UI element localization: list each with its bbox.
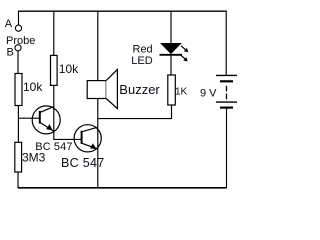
battery 9V	[216, 75, 237, 108]
transistor Q1 BC547	[32, 106, 60, 134]
svg-text:Buzzer: Buzzer	[119, 82, 160, 97]
transistor Q2 BC547	[74, 125, 101, 152]
wire bottom rail	[18, 187, 227, 189]
svg-text:BC 547: BC 547	[61, 156, 105, 170]
wire 3M3 to bottom rail	[17, 172, 19, 188]
wire top rail	[19, 10, 227, 12]
svg-text:B: B	[7, 46, 14, 58]
wire LED to 1K	[170, 55, 172, 75]
wire battery bottom to rail	[226, 109, 228, 188]
LED emission arrow 2	[180, 55, 185, 59]
svg-text:Probe: Probe	[6, 35, 35, 47]
wire left column 10k to 3M3	[17, 106, 19, 143]
buzzer (speaker symbol)	[87, 70, 117, 109]
svg-text:BC 547: BC 547	[35, 141, 72, 153]
wire battery top drop	[225, 11, 227, 75]
svg-text:A: A	[5, 18, 13, 30]
wire Q1 base	[18, 117, 39, 119]
wire buzzer drop	[97, 11, 99, 81]
node A probe terminal	[15, 25, 21, 31]
resistor 10k (collector)	[51, 55, 58, 85]
wire collector node to 1K	[98, 105, 172, 119]
LED emission arrow 1	[181, 46, 186, 50]
wire probe A drop	[18, 11, 20, 25]
svg-text:9 V: 9 V	[200, 88, 217, 100]
svg-text:10k: 10k	[23, 80, 43, 94]
wire 10k2 top drop	[53, 11, 55, 56]
wire LED drop	[170, 11, 172, 44]
resistor 10k (B branch)	[15, 74, 22, 106]
wire buzzer bottom through Q2 to bottom rail	[97, 99, 99, 189]
LED D1 red	[160, 43, 189, 61]
svg-text:LED: LED	[131, 55, 152, 67]
svg-text:1K: 1K	[175, 86, 188, 97]
svg-text:10k: 10k	[59, 62, 79, 76]
wire 10k2 to corner to Q2 base	[54, 85, 82, 139]
wire probe B to 10k	[17, 51, 19, 74]
resistor 1K	[168, 75, 176, 105]
node B probe terminal	[15, 45, 21, 51]
svg-text:Red: Red	[133, 44, 153, 56]
resistor 3M3	[15, 142, 22, 172]
